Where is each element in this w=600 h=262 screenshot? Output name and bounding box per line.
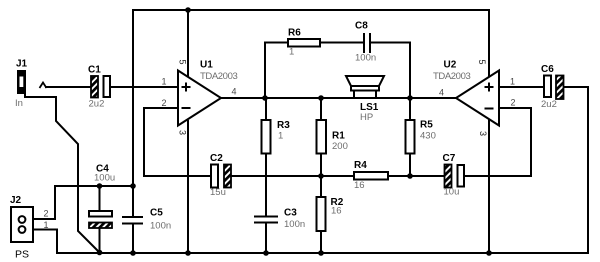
junction C8-R5 / output line — [407, 95, 413, 101]
svg-text:C6: C6 — [541, 64, 554, 75]
capacitor C2 (15u) — [210, 153, 231, 198]
resistor R6 (1) — [288, 28, 320, 58]
wire J1 sleeve to ground (diagonals) — [25, 92, 100, 253]
svg-text:TDA2003: TDA2003 — [200, 71, 237, 82]
capacitor C1 (2u2) — [88, 65, 110, 110]
svg-text:J1: J1 — [16, 59, 28, 70]
junction C4 / ground rail — [97, 250, 103, 256]
wire R4 right to C7 — [388, 175, 445, 177]
svg-text:2: 2 — [511, 98, 516, 108]
wire C2 to node R1/R2 and R4 left — [231, 175, 354, 177]
svg-text:100n: 100n — [284, 219, 305, 230]
junction R2 / ground rail — [318, 250, 324, 256]
wire R5 top — [409, 98, 411, 120]
capacitor C3 (100n) — [254, 208, 305, 231]
svg-text:R3: R3 — [277, 120, 290, 131]
svg-text:R4: R4 — [354, 160, 367, 171]
junction C3 / ground rail — [263, 250, 269, 256]
svg-text:PS: PS — [15, 249, 29, 261]
junction C5 / +V branch — [130, 183, 136, 189]
svg-text:C3: C3 — [284, 208, 297, 219]
svg-text:U2: U2 — [444, 60, 457, 71]
op-amp U1 TDA2003 — [178, 60, 237, 126]
svg-text:16: 16 — [331, 206, 342, 217]
svg-text:1: 1 — [44, 220, 49, 230]
svg-text:HP: HP — [360, 112, 373, 123]
svg-text:J2: J2 — [10, 195, 22, 206]
svg-text:2u2: 2u2 — [89, 99, 105, 110]
svg-text:15u: 15u — [210, 187, 226, 198]
svg-text:1: 1 — [162, 77, 167, 87]
wire C3 bottom to ground rail — [265, 224, 267, 254]
wire U1 pin 2 feedback loop to C2 — [144, 108, 211, 176]
svg-text:16: 16 — [354, 180, 365, 191]
wire J2 pin 2 to +V node — [26, 186, 133, 219]
svg-text:C2: C2 — [210, 153, 223, 164]
wire R1 top — [320, 98, 322, 120]
wire LS1 right leg — [375, 90, 377, 98]
junction U2 pin3 / ground rail — [486, 250, 492, 256]
wire C5 bottom to ground rail — [132, 224, 134, 254]
wire C8 down to output node — [371, 43, 410, 99]
resistor R2 (16) — [317, 197, 344, 231]
svg-text:1: 1 — [510, 77, 515, 87]
wire U1 pin 3 to ground rail — [187, 120, 189, 253]
wire R3 top — [265, 98, 267, 120]
svg-text:1: 1 — [278, 131, 283, 142]
wire C7 to U2 pin 2 feedback loop — [464, 108, 531, 176]
junction U1 pin3 / ground rail — [185, 250, 191, 256]
svg-text:430: 430 — [420, 131, 436, 142]
svg-text:C8: C8 — [355, 21, 368, 32]
wire +V rail: left vertical, top rail, U2 pin 5 drop — [133, 10, 489, 217]
svg-text:In: In — [15, 98, 23, 109]
capacitor C8 (100n) — [355, 21, 376, 64]
svg-text:2u2: 2u2 — [541, 99, 557, 110]
speaker LS1 (HP) — [346, 76, 384, 123]
resistor R1 (200) — [317, 120, 348, 154]
svg-text:5: 5 — [477, 60, 487, 65]
capacitor C6 (2u2) — [541, 64, 564, 110]
svg-text:100u: 100u — [94, 173, 115, 184]
wire LS1 left leg — [353, 90, 355, 98]
wire ground rail with right riser to C6 and left drop from J2 pin 1 — [26, 87, 588, 253]
svg-text:R1: R1 — [332, 131, 345, 142]
resistor R4 (16) — [354, 160, 388, 191]
svg-text:C5: C5 — [150, 208, 163, 219]
svg-text:R6: R6 — [288, 28, 301, 39]
op-amp U2 TDA2003 — [433, 60, 499, 126]
wire U2 pin 3 to ground rail — [488, 119, 490, 253]
junction C4 / +V branch — [97, 183, 103, 189]
junction R1 / output line — [318, 95, 324, 101]
svg-text:100n: 100n — [355, 53, 376, 64]
wire R2 bottom to ground rail — [320, 231, 322, 253]
junction U1 pin5 / +V rail — [185, 7, 191, 13]
capacitor C5 (100n) — [122, 208, 171, 232]
svg-text:200: 200 — [332, 141, 348, 152]
resistor R3 (1) — [262, 120, 291, 154]
svg-text:2: 2 — [162, 98, 167, 108]
wire R1 bottom — [320, 153, 322, 176]
wire C4 bottom stem — [99, 228, 101, 253]
junction R6-R3 / output line — [262, 95, 268, 101]
svg-text:U1: U1 — [200, 60, 213, 71]
junction C5 / ground rail — [130, 250, 136, 256]
svg-text:R5: R5 — [420, 120, 433, 131]
junction R1-R2 node — [318, 173, 324, 179]
svg-text:3: 3 — [178, 130, 188, 135]
svg-text:100n: 100n — [150, 221, 171, 232]
svg-text:10u: 10u — [444, 187, 460, 198]
wire R5 bottom — [409, 153, 411, 176]
junction R5-R4-C7 node — [407, 173, 413, 179]
connector J1 — [15, 59, 28, 110]
wire J1 tip to C1 — [45, 86, 91, 88]
wire U2 pin 1 to C6 — [499, 86, 544, 88]
svg-text:5: 5 — [178, 60, 188, 65]
wire C1 to U1 pin 1 — [110, 86, 178, 88]
svg-text:4: 4 — [439, 88, 444, 98]
connector J2 — [10, 195, 49, 261]
wire C4 top stem — [99, 186, 101, 211]
wire R6 to C8 — [320, 42, 363, 44]
wire R3 bottom to C3 — [265, 153, 267, 216]
svg-text:3: 3 — [478, 131, 488, 136]
svg-text:2: 2 — [44, 209, 49, 219]
svg-text:1: 1 — [289, 47, 294, 58]
svg-text:C1: C1 — [88, 65, 101, 76]
svg-text:TDA2003: TDA2003 — [433, 71, 470, 82]
wire output line U1 pin 4 to U2 pin 4 — [220, 97, 457, 99]
wire R2 top — [320, 176, 322, 197]
wire U1 pin 5 to +V rail — [187, 10, 189, 77]
capacitor C7 (10u) — [443, 153, 465, 198]
resistor R5 (430) — [406, 120, 436, 154]
wire R6 branch up from output node — [265, 43, 288, 99]
capacitor C4 (100u electrolytic) — [89, 164, 115, 229]
wire J1 tip hook — [40, 83, 47, 89]
svg-text:C7: C7 — [443, 153, 456, 164]
svg-text:4: 4 — [232, 87, 237, 97]
